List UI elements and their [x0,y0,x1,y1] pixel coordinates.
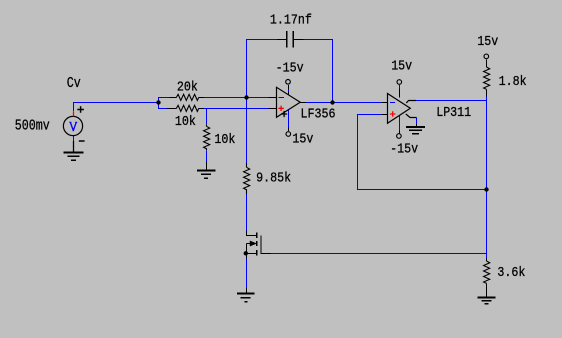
wire mosfet gate run to right column [271,253,487,255]
wire source top pin riser [73,102,75,111]
ground below source [64,153,84,161]
wire U2 V- pin upper segment [399,116,401,131]
resistor R4 9.85k [244,163,250,194]
svg-text:1.17nf: 1.17nf [270,13,312,28]
node C output junction dot [330,100,334,104]
wire cap top right [304,39,333,41]
wire U2 gnd pin riser [416,118,418,125]
U2 ground pin [406,114,417,118]
wire right column down to 3.6k [486,101,488,258]
wire cap loop left riser [246,39,248,98]
resistor R6 3.6k [484,261,490,283]
resistor R2 10k horizontal [167,105,204,111]
U1 output stub [300,102,306,104]
resistor R3 10k vertical [204,124,210,150]
U1 V+ pin bottom segment [288,128,290,132]
U2 plus label (red) [390,111,395,116]
U1 minus label [279,97,285,99]
svg-text:20k: 20k [177,80,198,95]
M1 channel segment bulk [256,241,258,246]
svg-text:-15v: -15v [390,142,418,157]
voltage source minus sign [79,140,85,142]
M1 bulk arrow [250,241,256,246]
U2 V+ pin top [399,85,401,98]
M1 source node to ground upper stub [246,254,248,259]
capacitor C1 1.17nf leads [277,39,304,41]
U2 V+ terminal circle [397,80,402,85]
U1 V- terminal circle [286,80,291,85]
U2 V- terminal circle [397,134,402,139]
transistor M1 drain lead [247,231,257,236]
svg-text:-15v: -15v [276,62,304,77]
node E source junction dot [244,251,248,255]
svg-text:10k: 10k [175,115,196,130]
svg-text:10k: 10k [214,133,235,148]
U2 inverting input stub [382,102,388,104]
wire 9.85k to mosfet drain [246,194,248,231]
capacitor C1 plates [287,31,294,47]
voltage source V glyph [69,122,77,131]
U1 V+ terminal circle [286,132,291,137]
terminal 15v top right circle [484,54,489,59]
1.8k top lead [486,59,488,67]
3.6k ground stub [486,283,488,297]
ground at U2 [406,127,425,134]
wire cap loop right riser to output node [332,39,334,103]
wire source bottom pin [73,136,75,141]
ground below R3 [197,171,215,179]
svg-text:500mv: 500mv [15,117,50,134]
wire from source to input node [74,102,159,104]
U1 plus label (red) [278,106,283,111]
M1 ground stub [246,288,248,294]
resistor R5 1.8k [484,67,490,89]
wire U2 output to 1.8k junction [416,100,487,102]
U2 minus label [390,102,395,104]
voltage source ground stub [73,141,75,153]
M1 gate bar and lead [261,236,271,254]
R3 ground stub [206,162,208,171]
wire U1 V+ pin upper segment [288,110,290,128]
resistor R1 20k [170,94,205,100]
wire node B down to 9.85k [246,98,248,164]
wire vertical 10k to ground [206,150,208,161]
svg-text:15v: 15v [292,132,313,147]
wire 10k to U1 noninverting input [199,108,269,110]
wire 20k to U1 inverting input [199,97,269,99]
node B inverting input junction dot [244,95,248,99]
voltage source V1 circle [63,116,82,135]
voltage source plus sign [77,106,84,113]
op-amp U1 LF356 triangle [277,87,301,117]
comparator U2 LP311 triangle [388,94,411,124]
svg-text:15v: 15v [391,60,412,75]
U1 inverting input stub [269,97,277,99]
svg-text:1.8k: 1.8k [499,75,527,90]
wire mosfet source node to ground [246,259,248,289]
wire feedback bottom run [358,189,487,191]
svg-text:LP311: LP311 [436,106,471,121]
M1 channel segment drain [256,232,258,238]
U2 ground pin stub [416,124,418,127]
ground below 3.6k [478,298,496,304]
1.8k bottom lead [486,89,488,96]
svg-text:LF356: LF356 [301,108,336,123]
wire feedback left riser [357,114,359,190]
wire 1.8k bottom stub [486,97,488,101]
svg-text:15v: 15v [477,35,498,50]
ground below M1 [237,294,254,302]
U1 V+ power plus label [281,111,287,117]
U1 V- pin top [288,85,290,95]
voltage source plus pin (red) [73,111,75,116]
node A input junction dot [156,100,160,104]
wire to 20k [159,97,170,99]
svg-text:Cv: Cv [67,75,81,92]
U2 noninverting input stub [382,114,388,116]
U2 V- pin bottom segment [399,131,401,134]
wire cap top left [247,39,278,41]
svg-text:9.85k: 9.85k [256,172,291,187]
M1 bulk lead [247,243,251,245]
wire U2 noninverting feedback left [358,114,383,116]
3.6k top lead [486,258,488,262]
node A input junction riser [158,97,160,109]
M1 channel segment source [256,250,258,255]
M1 bulk-source tie [246,244,248,254]
wire tap down to vertical 10k [206,109,208,125]
U2 output stub [406,101,416,103]
wire U1 output to U2 inverting input [306,102,382,104]
U1 noninverting input stub [269,108,277,110]
wire to 10k [159,108,170,110]
node D feedback junction dot [484,187,488,191]
svg-text:3.6k: 3.6k [497,266,525,281]
M1 source lead [247,253,257,255]
